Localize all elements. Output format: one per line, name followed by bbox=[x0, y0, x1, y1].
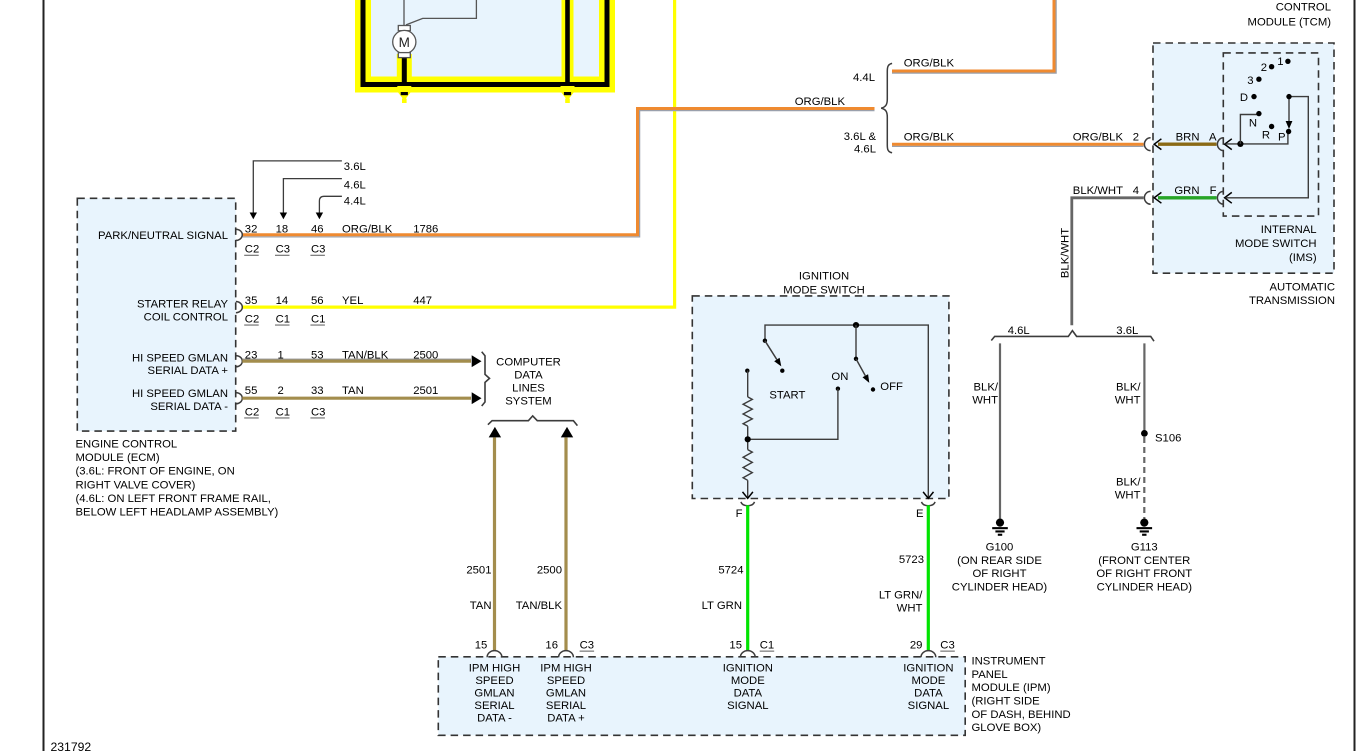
svg-text:S106: S106 bbox=[1155, 433, 1181, 445]
wire YEL 447 bbox=[242, 0, 674, 307]
IMS contact dot position D bbox=[1251, 94, 1256, 99]
svg-text:F: F bbox=[736, 508, 743, 520]
svg-text:MODE SWITCH: MODE SWITCH bbox=[1235, 238, 1317, 250]
wire TAN 2501 bbox=[242, 397, 471, 400]
starter motor M terminal block top bbox=[398, 26, 410, 31]
svg-text:GRN: GRN bbox=[1174, 185, 1199, 197]
svg-text:WHT: WHT bbox=[1115, 395, 1141, 407]
svg-text:SERIAL DATA -: SERIAL DATA - bbox=[150, 401, 228, 413]
wire BLK/WHT 3.6L to S106 bbox=[1143, 343, 1145, 433]
svg-text:C2: C2 bbox=[245, 313, 259, 325]
ECM pin hump gmlan+ bbox=[236, 356, 242, 367]
svg-text:15: 15 bbox=[475, 640, 488, 652]
IGN F arrow at box bottom bbox=[743, 492, 753, 498]
svg-text:WHT: WHT bbox=[972, 395, 998, 407]
svg-text:INSTRUMENT: INSTRUMENT bbox=[972, 656, 1046, 668]
svg-text:TAN/BLK: TAN/BLK bbox=[516, 600, 563, 612]
svg-text:4.4L: 4.4L bbox=[344, 196, 366, 208]
svg-text:15: 15 bbox=[729, 640, 742, 652]
page left border bbox=[43, 0, 45, 751]
svg-text:PANEL: PANEL bbox=[972, 669, 1008, 681]
IGN F pin connector hump bbox=[741, 502, 755, 506]
connector arrow into IMS row A bbox=[1225, 139, 1232, 150]
wire ORG/BLK branch 3.6L 4.6L tracer bbox=[892, 145, 1144, 147]
IGN start contact dot bbox=[780, 369, 784, 373]
svg-text:WHT: WHT bbox=[897, 603, 923, 615]
svg-text:2500: 2500 bbox=[537, 565, 562, 577]
svg-text:C1: C1 bbox=[760, 640, 774, 652]
svg-text:P: P bbox=[1278, 132, 1286, 144]
svg-text:DATA: DATA bbox=[914, 688, 943, 700]
starter motor feed wire bbox=[402, 54, 407, 82]
svg-text:4.4L: 4.4L bbox=[853, 72, 875, 84]
svg-text:2: 2 bbox=[1261, 62, 1267, 74]
svg-text:LT GRN: LT GRN bbox=[702, 600, 742, 612]
svg-text:4: 4 bbox=[1133, 185, 1139, 197]
wire BRN A bbox=[1158, 142, 1217, 145]
IGN E arrow at box bottom bbox=[923, 492, 933, 498]
svg-text:C1: C1 bbox=[311, 313, 325, 325]
svg-text:SPEED: SPEED bbox=[547, 675, 585, 687]
svg-text:N: N bbox=[1249, 118, 1257, 130]
svg-text:C3: C3 bbox=[580, 640, 594, 652]
svg-text:18: 18 bbox=[276, 224, 289, 236]
svg-text:PARK/NEUTRAL SIGNAL: PARK/NEUTRAL SIGNAL bbox=[98, 230, 228, 242]
IMS contact dot position 2 bbox=[1269, 64, 1274, 69]
svg-text:GMLAN: GMLAN bbox=[546, 688, 586, 700]
IGN resistor 1 bbox=[743, 397, 752, 426]
inline connector arc at AT box row F bbox=[1144, 191, 1150, 204]
svg-text:3.6L &: 3.6L & bbox=[844, 131, 877, 143]
svg-text:CONTROL: CONTROL bbox=[1276, 2, 1331, 14]
svg-text:BLK/WHT: BLK/WHT bbox=[1073, 185, 1123, 197]
svg-text:MODE: MODE bbox=[911, 675, 945, 687]
svg-text:DATA +: DATA + bbox=[547, 713, 585, 725]
solenoid jumper wire bbox=[406, 0, 476, 25]
arrow TAN/BLK 2500 bbox=[472, 355, 482, 367]
svg-text:GMLAN: GMLAN bbox=[474, 688, 514, 700]
svg-text:SERIAL DATA +: SERIAL DATA + bbox=[148, 365, 229, 377]
IGN off blade arrow bbox=[863, 374, 870, 383]
svg-text:LT GRN/: LT GRN/ bbox=[879, 590, 923, 602]
connector arrow into IMS row F bbox=[1225, 192, 1232, 203]
svg-text:2501: 2501 bbox=[466, 565, 491, 577]
IGN off blade bbox=[856, 359, 865, 376]
automatic transmission box bbox=[1153, 43, 1334, 273]
svg-text:RIGHT VALVE COVER): RIGHT VALVE COVER) bbox=[76, 479, 196, 491]
svg-text:GLOVE BOX): GLOVE BOX) bbox=[972, 722, 1042, 734]
solenoid wire bbox=[403, 0, 405, 26]
svg-text:MODULE (ECM): MODULE (ECM) bbox=[76, 452, 160, 464]
ground G113 bbox=[1140, 519, 1148, 527]
IGN wire to resistor bbox=[747, 371, 749, 397]
svg-text:2: 2 bbox=[1133, 132, 1139, 144]
wire LT GRN 5724 bbox=[746, 505, 749, 650]
split bar BLK/WHT bbox=[991, 331, 1154, 342]
svg-text:BRN: BRN bbox=[1176, 132, 1200, 144]
svg-text:C3: C3 bbox=[276, 244, 290, 256]
battery cable wire (yellow highlight) bbox=[562, 0, 574, 82]
IMS contact dot position 1 bbox=[1285, 59, 1290, 64]
svg-text:(4.6L: ON LEFT FRONT FRAME RAI: (4.6L: ON LEFT FRONT FRAME RAIL, bbox=[76, 493, 271, 505]
svg-text:HI SPEED GMLAN: HI SPEED GMLAN bbox=[132, 352, 228, 364]
svg-text:ORG/BLK: ORG/BLK bbox=[904, 58, 955, 70]
variant pointer 3.6L bbox=[253, 161, 342, 213]
svg-text:SERIAL: SERIAL bbox=[546, 700, 586, 712]
svg-text:BLK/: BLK/ bbox=[1116, 477, 1141, 489]
starter box interior bbox=[363, 0, 607, 85]
IGN resistor top contact dot bbox=[745, 369, 749, 373]
splice S106 bbox=[1141, 430, 1148, 437]
svg-text:OF RIGHT: OF RIGHT bbox=[973, 568, 1027, 580]
svg-text:SIGNAL: SIGNAL bbox=[908, 700, 949, 712]
svg-text:ORG/BLK: ORG/BLK bbox=[342, 224, 393, 236]
ECM pin hump gmlan- bbox=[236, 393, 242, 404]
svg-text:SIGNAL: SIGNAL bbox=[727, 700, 768, 712]
svg-text:3: 3 bbox=[1247, 75, 1253, 87]
svg-text:46: 46 bbox=[311, 224, 324, 236]
svg-text:COIL CONTROL: COIL CONTROL bbox=[144, 312, 228, 324]
svg-text:IGNITION: IGNITION bbox=[723, 663, 773, 675]
svg-text:CYLINDER HEAD): CYLINDER HEAD) bbox=[952, 581, 1048, 593]
svg-text:TRANSMISSION: TRANSMISSION bbox=[1249, 295, 1335, 307]
brace computer data lines bbox=[482, 352, 490, 406]
svg-text:C1: C1 bbox=[276, 406, 290, 418]
IGN off switch wire bbox=[855, 325, 857, 359]
svg-text:2501: 2501 bbox=[413, 385, 438, 397]
IMS contact dot position R bbox=[1269, 124, 1274, 129]
wire TAN/BLK 2500 vertical bbox=[564, 438, 567, 651]
svg-text:5724: 5724 bbox=[718, 565, 743, 577]
svg-text:1: 1 bbox=[1277, 56, 1283, 68]
wire BLK/WHT S106 to G113 (dashed) bbox=[1143, 437, 1145, 519]
starter box black border bbox=[363, 0, 607, 85]
svg-text:IGNITION: IGNITION bbox=[799, 271, 849, 283]
svg-text:AUTOMATIC: AUTOMATIC bbox=[1270, 282, 1335, 294]
wire BLK/WHT 4.6L to G100 bbox=[999, 343, 1001, 518]
svg-text:(IMS): (IMS) bbox=[1289, 252, 1317, 264]
svg-text:33: 33 bbox=[311, 385, 324, 397]
arrow TAN 2501 bbox=[472, 392, 482, 404]
svg-text:START: START bbox=[769, 390, 805, 402]
wire ORG/BLK 1786 bbox=[242, 109, 874, 235]
svg-text:SPEED: SPEED bbox=[475, 675, 513, 687]
IMS wiper pivot dot bbox=[1286, 94, 1291, 99]
svg-text:BELOW LEFT HEADLAMP ASSEMBLY): BELOW LEFT HEADLAMP ASSEMBLY) bbox=[76, 507, 279, 519]
IGN resistor 2 bbox=[743, 450, 752, 481]
IGN start blade pivot dot bbox=[763, 339, 767, 343]
svg-text:56: 56 bbox=[311, 295, 324, 307]
IPM pin hump 15 bbox=[487, 651, 502, 658]
svg-text:(RIGHT SIDE: (RIGHT SIDE bbox=[972, 696, 1041, 708]
engine control module box bbox=[77, 198, 235, 431]
wire GRN F bbox=[1158, 196, 1217, 199]
svg-text:35: 35 bbox=[245, 295, 258, 307]
svg-text:YEL: YEL bbox=[342, 295, 363, 307]
ECM pin hump park/neutral bbox=[236, 229, 242, 240]
IGN start blade arrow bbox=[774, 358, 781, 367]
IMS wire P to F pin bbox=[1226, 97, 1309, 198]
svg-text:DATA: DATA bbox=[514, 370, 543, 382]
connector arrow into AT box row A bbox=[1154, 139, 1161, 150]
svg-text:WHT: WHT bbox=[1115, 490, 1141, 502]
svg-text:INTERNAL: INTERNAL bbox=[1261, 224, 1317, 236]
IGN wire resistor to F bbox=[747, 480, 749, 497]
svg-text:55: 55 bbox=[245, 385, 258, 397]
wire TAN/BLK 2500 tracer bbox=[242, 358, 471, 360]
wire LT GRN/WHT 5723 bbox=[927, 505, 930, 650]
starter motor M terminal block bottom bbox=[398, 53, 410, 58]
svg-text:MODE: MODE bbox=[731, 675, 765, 687]
svg-text:IPM HIGH: IPM HIGH bbox=[469, 663, 520, 675]
IGN on wire bbox=[748, 389, 838, 440]
svg-text:ENGINE CONTROL: ENGINE CONTROL bbox=[76, 439, 178, 451]
starter motor M bbox=[393, 30, 416, 53]
IMS junction dot common bbox=[1237, 141, 1243, 147]
IMS wiper wire bbox=[1288, 97, 1290, 123]
svg-text:G113: G113 bbox=[1131, 542, 1158, 554]
underbrace computer data lines bbox=[488, 416, 578, 426]
IGN off pivot dot bbox=[854, 357, 858, 361]
svg-text:DATA -: DATA - bbox=[477, 713, 512, 725]
svg-text:14: 14 bbox=[276, 295, 289, 307]
svg-text:29: 29 bbox=[910, 640, 923, 652]
svg-text:IGNITION: IGNITION bbox=[903, 663, 953, 675]
IGN on contact dot bbox=[836, 387, 840, 391]
svg-text:ORG/BLK: ORG/BLK bbox=[1073, 132, 1124, 144]
svg-text:16: 16 bbox=[545, 640, 558, 652]
svg-text:3.6L: 3.6L bbox=[1116, 325, 1138, 337]
wire TAN 2501 vertical bbox=[493, 438, 496, 651]
svg-text:MODE SWITCH: MODE SWITCH bbox=[783, 285, 865, 297]
wire ORG/BLK branch 4.4L tracer bbox=[892, 0, 1056, 73]
svg-text:C1: C1 bbox=[276, 313, 290, 325]
svg-text:TAN: TAN bbox=[342, 385, 364, 397]
svg-text:LINES: LINES bbox=[512, 383, 545, 395]
svg-text:M: M bbox=[399, 35, 410, 50]
inline connector arc at IMS edge row F bbox=[1217, 191, 1223, 204]
IGN junction dot top bbox=[853, 322, 859, 328]
svg-text:G100: G100 bbox=[986, 542, 1014, 554]
IGN junction dot resistors bbox=[745, 436, 751, 442]
ground arrow below starter box at x=567.5 bbox=[561, 86, 575, 90]
starter box yellow highlight bbox=[363, 0, 607, 85]
svg-text:E: E bbox=[916, 508, 924, 520]
svg-text:3.6L: 3.6L bbox=[344, 161, 366, 173]
svg-text:CYLINDER HEAD): CYLINDER HEAD) bbox=[1097, 581, 1193, 593]
up arrow tan 2501 bbox=[489, 427, 501, 438]
inline connector arc at IMS edge row A bbox=[1217, 138, 1223, 151]
svg-text:4.6L: 4.6L bbox=[1008, 325, 1030, 337]
svg-text:5723: 5723 bbox=[899, 554, 924, 566]
svg-text:32: 32 bbox=[245, 224, 258, 236]
svg-text:IPM HIGH: IPM HIGH bbox=[540, 663, 591, 675]
IGN top wire bbox=[765, 325, 928, 497]
IGN off contact dot bbox=[871, 387, 875, 391]
IPM pin hump 15 C1 bbox=[740, 651, 755, 658]
svg-text:BLK/WHT: BLK/WHT bbox=[1059, 228, 1071, 278]
page right border bbox=[1354, 0, 1356, 751]
svg-text:C3: C3 bbox=[311, 244, 325, 256]
inline connector arc C at AT box row A bbox=[1144, 138, 1150, 151]
svg-text:SYSTEM: SYSTEM bbox=[505, 396, 551, 408]
svg-text:STARTER RELAY: STARTER RELAY bbox=[137, 298, 228, 310]
svg-text:4.6L: 4.6L bbox=[854, 144, 876, 156]
IGN E pin connector hump bbox=[922, 502, 936, 506]
up arrow tan 2500 bbox=[561, 427, 573, 438]
IMS contact dot position N bbox=[1256, 111, 1261, 116]
svg-text:D: D bbox=[1240, 92, 1248, 104]
internal mode switch box bbox=[1223, 53, 1318, 216]
svg-text:OFF: OFF bbox=[880, 381, 903, 393]
svg-text:BLK/: BLK/ bbox=[974, 382, 999, 394]
ground arrow below starter box at x=404.3 bbox=[397, 86, 411, 90]
IPM pin hump 16 bbox=[559, 651, 574, 658]
svg-text:ON: ON bbox=[831, 371, 848, 383]
IGN start blade bbox=[765, 341, 777, 360]
svg-text:4.6L: 4.6L bbox=[344, 180, 366, 192]
svg-text:MODULE (TCM): MODULE (TCM) bbox=[1248, 16, 1332, 28]
svg-text:COMPUTER: COMPUTER bbox=[496, 357, 561, 369]
variant pointer 4.4L bbox=[319, 196, 342, 213]
IMS contact dot position 3 bbox=[1256, 77, 1261, 82]
variant pointer 4.6L bbox=[283, 179, 342, 213]
IPM pin hump 29 bbox=[921, 651, 936, 658]
svg-text:(ON REAR SIDE: (ON REAR SIDE bbox=[957, 555, 1042, 567]
svg-text:C2: C2 bbox=[245, 244, 259, 256]
svg-text:OF DASH, BEHIND: OF DASH, BEHIND bbox=[972, 709, 1071, 721]
svg-text:C2: C2 bbox=[245, 406, 259, 418]
svg-text:ORG/BLK: ORG/BLK bbox=[904, 132, 955, 144]
svg-text:ORG/BLK: ORG/BLK bbox=[795, 96, 846, 108]
IMS wiper arrow bbox=[1286, 121, 1293, 129]
wire ORG/BLK branch 4.4L bbox=[892, 0, 1054, 71]
svg-text:(FRONT CENTER: (FRONT CENTER bbox=[1098, 555, 1190, 567]
IMS contact dot position P bbox=[1286, 129, 1291, 134]
svg-text:R: R bbox=[1262, 130, 1270, 142]
IGN wire between resistors bbox=[747, 426, 749, 449]
ignition mode switch box bbox=[692, 296, 949, 499]
wire ORG/BLK 1786 tracer bbox=[242, 111, 874, 237]
svg-text:(3.6L: FRONT OF ENGINE, ON: (3.6L: FRONT OF ENGINE, ON bbox=[76, 466, 235, 478]
connector arrow into AT box row F bbox=[1154, 192, 1161, 203]
svg-text:F: F bbox=[1210, 185, 1217, 197]
svg-text:BLK/: BLK/ bbox=[1116, 382, 1141, 394]
starter motor feed wire (yellow highlight) bbox=[397, 54, 412, 82]
svg-text:OF RIGHT FRONT: OF RIGHT FRONT bbox=[1096, 568, 1192, 580]
svg-text:DATA: DATA bbox=[734, 688, 763, 700]
instrument panel module box bbox=[438, 657, 965, 736]
svg-text:A: A bbox=[1209, 132, 1217, 144]
brace orange split bbox=[881, 63, 892, 152]
ECM pin hump starter relay bbox=[236, 302, 242, 313]
ground G100 bbox=[996, 519, 1004, 527]
svg-text:447: 447 bbox=[413, 295, 432, 307]
wire ORG/BLK branch 3.6L 4.6L bbox=[892, 143, 1144, 146]
svg-text:HI SPEED GMLAN: HI SPEED GMLAN bbox=[132, 388, 228, 400]
svg-text:C3: C3 bbox=[940, 640, 954, 652]
svg-text:C3: C3 bbox=[311, 406, 325, 418]
battery cable wire bbox=[565, 0, 570, 82]
wire TAN/BLK 2500 bbox=[242, 360, 471, 363]
svg-text:1786: 1786 bbox=[413, 224, 438, 236]
svg-text:231792: 231792 bbox=[51, 740, 92, 751]
svg-text:MODULE (IPM): MODULE (IPM) bbox=[972, 682, 1051, 694]
IMS wire N branch bbox=[1240, 115, 1257, 144]
svg-text:TAN: TAN bbox=[470, 600, 492, 612]
svg-text:SERIAL: SERIAL bbox=[474, 700, 514, 712]
wire BLK/WHT from pin 4 bbox=[1072, 198, 1144, 325]
IMS wire common A to P contact bbox=[1226, 133, 1288, 144]
svg-text:2: 2 bbox=[278, 385, 284, 397]
